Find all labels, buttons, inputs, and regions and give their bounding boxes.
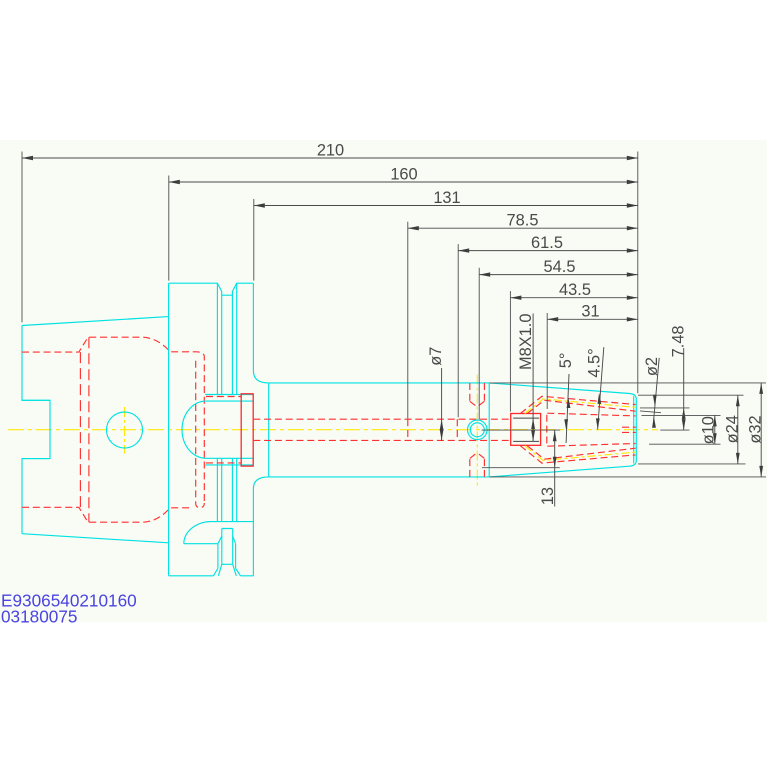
svg-text:ø24: ø24 — [723, 415, 741, 443]
dimension 131 — [254, 189, 638, 207]
svg-text:210: 210 — [317, 141, 344, 159]
dimension 4.5 deg leader — [585, 347, 603, 429]
shank taper outline — [22, 317, 169, 543]
part number text — [1, 590, 137, 626]
svg-text:ø10: ø10 — [699, 416, 717, 444]
svg-text:4.5°: 4.5° — [585, 348, 603, 377]
svg-text:M8X1.0: M8X1.0 — [517, 314, 535, 371]
main horizontal centerline — [8, 429, 658, 431]
svg-text:ø2: ø2 — [643, 357, 661, 376]
dimension phi7 — [427, 347, 445, 441]
svg-text:78.5: 78.5 — [507, 212, 539, 230]
drive hole circle — [107, 412, 143, 448]
dimension phi2 leader — [643, 357, 661, 428]
dimension 13 — [482, 430, 561, 506]
svg-text:160: 160 — [390, 165, 417, 183]
svg-text:31: 31 — [581, 303, 599, 321]
body cylinder outline — [269, 383, 490, 477]
svg-text:03180075: 03180075 — [1, 607, 77, 627]
dimension 31 — [547, 303, 638, 321]
nose taper outline — [489, 383, 636, 477]
cross hole circles — [468, 420, 488, 440]
dimension 210 — [22, 141, 638, 159]
M8x1.0 thread boss — [511, 414, 547, 446]
M8 cross hole hidden (top) — [470, 383, 485, 407]
svg-text:ø7: ø7 — [427, 347, 445, 366]
coolant bore hidden lines — [253, 419, 510, 440]
dimension M8X1.0 — [517, 314, 535, 442]
shank hidden bore (red dashed) — [22, 337, 204, 522]
svg-text:13: 13 — [539, 487, 557, 505]
M8 cross hole hidden (bottom) — [470, 453, 485, 477]
svg-text:7.48: 7.48 — [669, 325, 687, 357]
drawing area tint band — [0, 140, 767, 622]
flange V-groove silhouette lines — [217, 283, 236, 521]
dimension phi24 — [638, 395, 746, 464]
dimension phi32 — [490, 383, 767, 477]
svg-text:5°: 5° — [557, 353, 575, 369]
svg-text:43.5: 43.5 — [559, 281, 591, 299]
flange outline — [169, 283, 269, 576]
extension lines — [22, 152, 638, 420]
dimension phi10 — [642, 415, 721, 444]
collet slot hidden lines — [520, 396, 635, 463]
coolant tube (red) — [206, 394, 253, 466]
collet slot centerlines (yellow) — [525, 399, 636, 461]
dimension 78.5 — [408, 212, 638, 230]
dimension 54.5 — [479, 258, 638, 276]
svg-text:61.5: 61.5 — [531, 234, 563, 252]
dimension 61.5 — [458, 234, 638, 252]
flange bottom drive slot — [184, 522, 254, 576]
dimension 5 deg leader — [557, 353, 575, 443]
vertical centerline M8 cross hole — [476, 375, 478, 487]
dimension 160 — [169, 165, 638, 183]
svg-text:54.5: 54.5 — [544, 258, 576, 276]
vertical centerline drive hole — [124, 407, 126, 454]
dimension 7.48 — [640, 325, 690, 430]
coolant tube boss (bullet) — [182, 395, 253, 465]
svg-text:131: 131 — [433, 189, 460, 207]
svg-text:ø32: ø32 — [747, 415, 765, 443]
dimension 43.5 — [510, 281, 637, 299]
